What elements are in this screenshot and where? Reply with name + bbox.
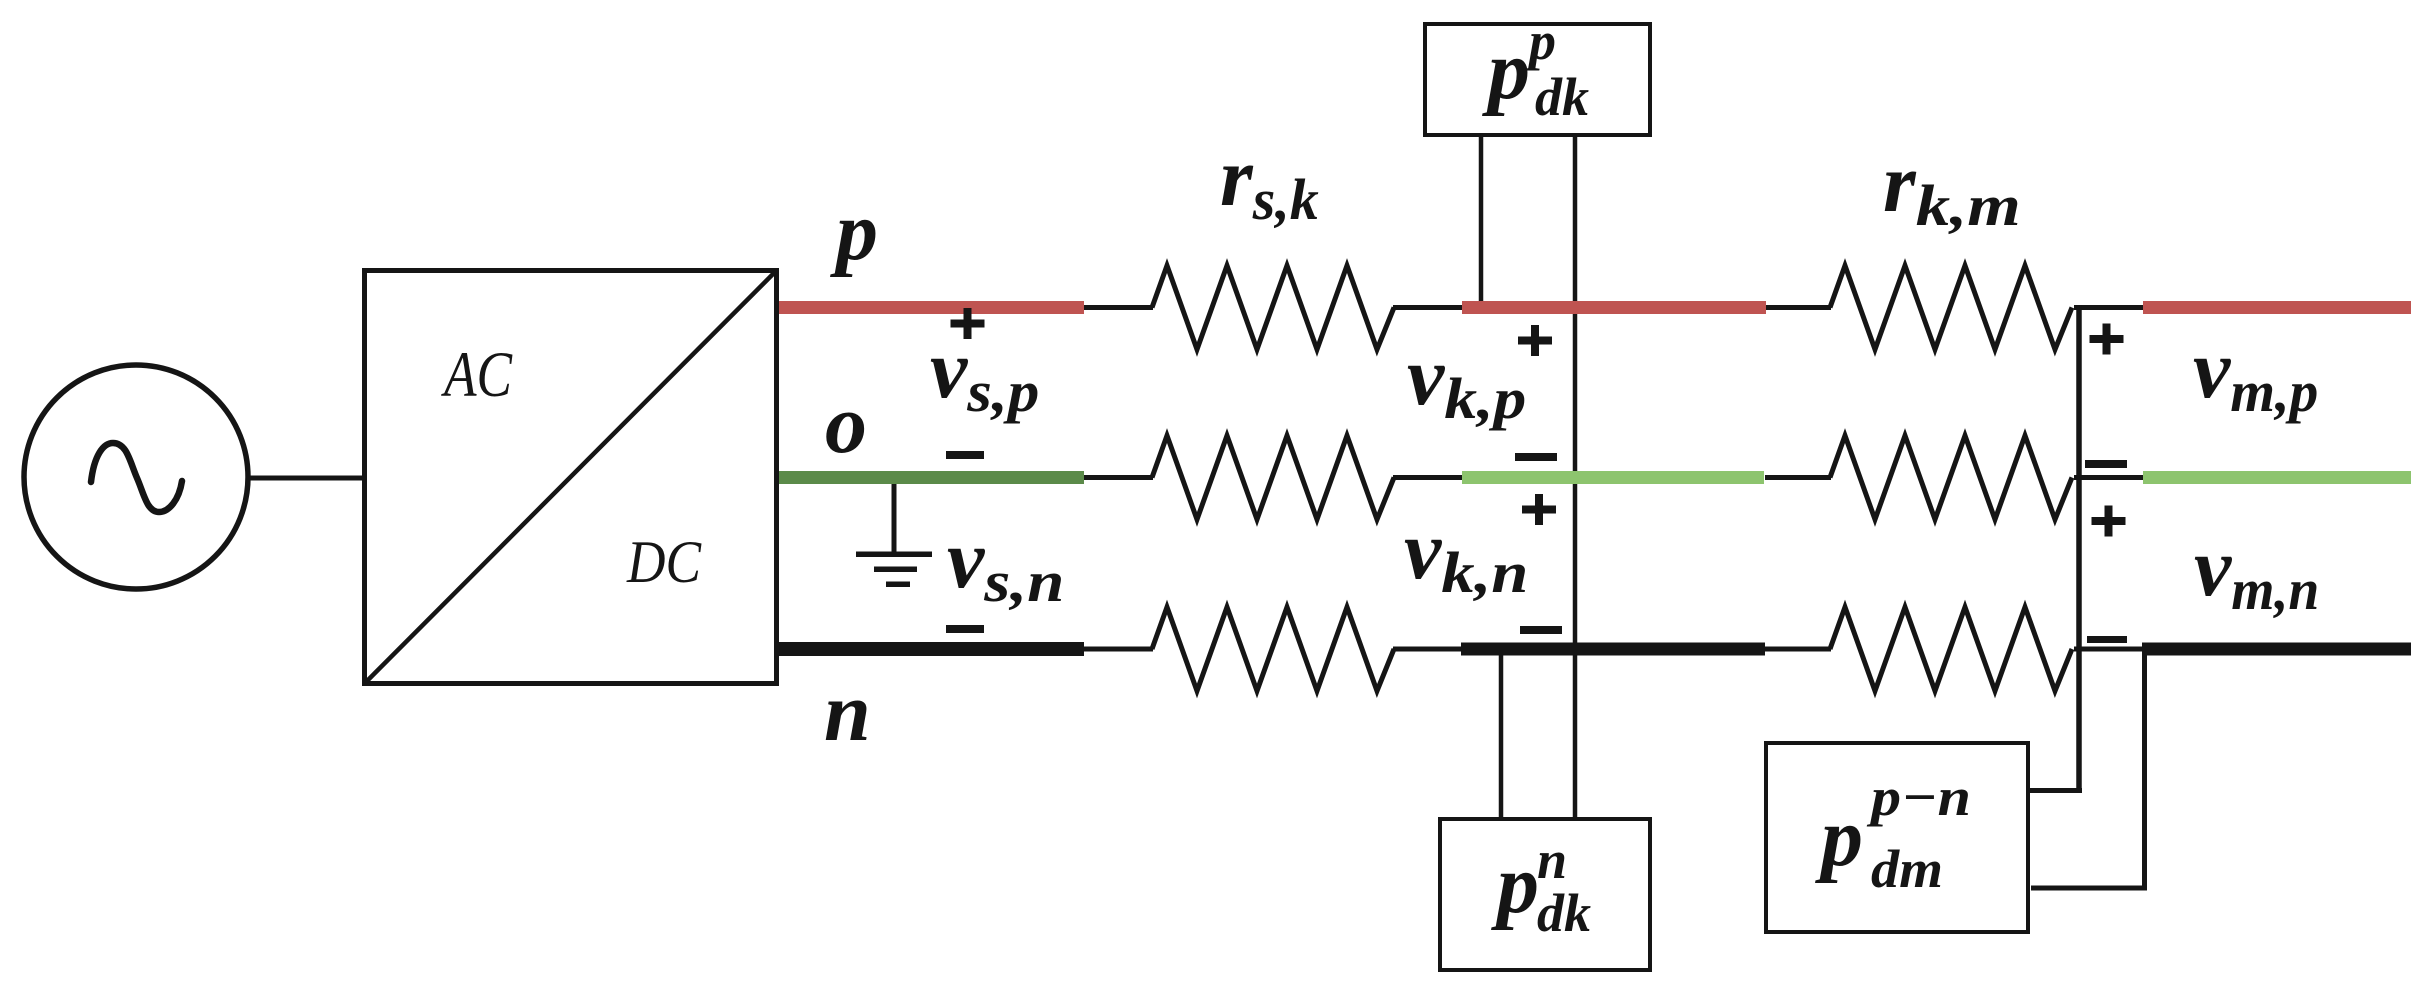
- svg-text:n: n: [1537, 830, 1567, 890]
- svg-text:DC: DC: [626, 529, 702, 595]
- svg-text:p: p: [830, 185, 878, 278]
- svg-text:o: o: [825, 378, 867, 471]
- svg-text:p: p: [1815, 791, 1863, 884]
- svg-text:AC: AC: [441, 339, 513, 411]
- svg-text:dk: dk: [1537, 883, 1591, 943]
- svg-text:n: n: [824, 666, 871, 759]
- svg-text:p: p: [1491, 838, 1539, 931]
- svg-text:dk: dk: [1535, 67, 1589, 127]
- svg-text:dm: dm: [1871, 839, 1943, 899]
- svg-text:p: p: [1482, 24, 1530, 117]
- svg-text:p: p: [1525, 11, 1556, 71]
- svg-text:p−n: p−n: [1867, 767, 1971, 827]
